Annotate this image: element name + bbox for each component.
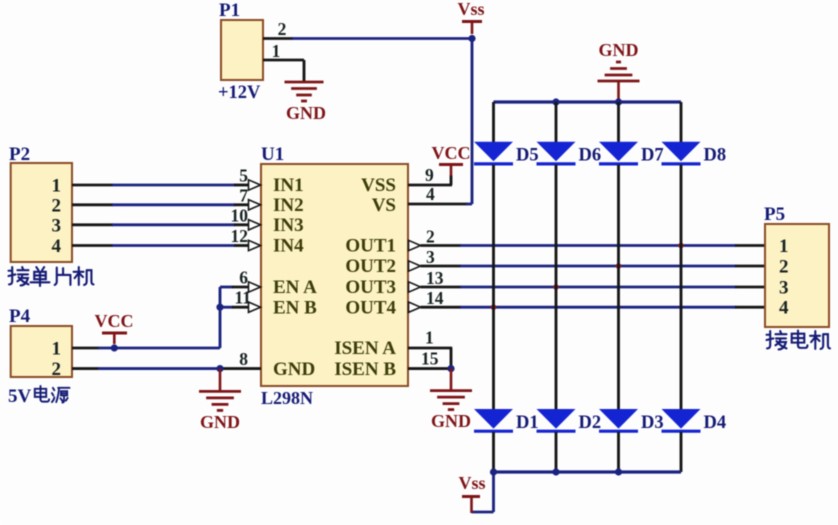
svg-text:D2: D2: [579, 413, 602, 433]
node bottom rail / D2: [552, 468, 559, 475]
label 接单片机: [9, 267, 29, 285]
svg-text:1: 1: [272, 41, 281, 61]
svg-text:VSS: VSS: [361, 175, 396, 196]
svg-text:1: 1: [425, 328, 434, 348]
diode D5: [474, 142, 513, 162]
svg-text:P2: P2: [9, 144, 30, 165]
svg-text:3: 3: [779, 278, 789, 299]
svg-text:ISEN B: ISEN B: [334, 359, 396, 380]
svg-text:7: 7: [239, 185, 248, 205]
diode D8: [662, 142, 701, 162]
wire P2 to U1 IN (pin 5): [72, 184, 113, 187]
power Vss (bottom): [462, 495, 480, 498]
svg-text:+12V: +12V: [218, 83, 261, 103]
svg-text:GND: GND: [431, 411, 471, 431]
wire column between D6/D2: [555, 165, 558, 410]
svg-text:L298N: L298N: [261, 388, 313, 408]
wire column D4 lower: [680, 432, 683, 472]
power Vss (top): [462, 20, 482, 23]
svg-text:EN A: EN A: [273, 277, 317, 298]
wire U1 VS pin4: [408, 203, 467, 206]
wire column D3 lower: [617, 432, 620, 472]
svg-text:IN1: IN1: [273, 175, 304, 196]
wire P2 to U1 IN (pin 12): [72, 244, 113, 247]
svg-text:2: 2: [278, 19, 287, 39]
svg-text:10: 10: [231, 205, 249, 225]
svg-text:OUT4: OUT4: [345, 297, 396, 318]
svg-text:EN B: EN B: [273, 297, 317, 318]
wire bottom rail to Vss: [492, 472, 495, 512]
node Vss junction: [468, 35, 475, 42]
power VCC (U1): [439, 163, 463, 166]
wire OUT net (pin 3) to P5: [409, 261, 421, 271]
svg-text:1: 1: [52, 176, 62, 197]
ground (top, inverted): [616, 61, 621, 64]
svg-text:2: 2: [52, 195, 62, 216]
node EN B junction: [216, 304, 223, 311]
label 接电机: [767, 331, 787, 349]
wire column D8 upper: [680, 102, 683, 143]
wire P2 to U1 IN (pin 7): [72, 203, 113, 206]
wire column between D7/D3: [617, 165, 620, 410]
svg-text:12: 12: [231, 226, 249, 246]
svg-text:U1: U1: [261, 144, 284, 165]
svg-text:1: 1: [52, 339, 62, 360]
connector P1: [221, 20, 263, 80]
wire EN B: [220, 306, 233, 309]
ground (P1): [285, 81, 324, 84]
connector P5: [765, 224, 829, 327]
svg-text:P1: P1: [219, 0, 240, 21]
node bottom rail / D3: [615, 468, 622, 475]
wire bottom rail: [494, 470, 682, 473]
wire U1 VSS pin9 to VCC: [408, 184, 452, 187]
wire P1 pin1 to ground: [263, 59, 304, 62]
svg-text:D4: D4: [704, 413, 727, 433]
wire P4 pin1 to EN net: [72, 347, 99, 350]
svg-text:D6: D6: [579, 146, 602, 166]
node D7/OUT2 junction: [616, 263, 622, 269]
svg-text:4: 4: [779, 298, 789, 319]
diode D6: [537, 142, 576, 162]
wire P2 to U1 IN (pin 10): [72, 223, 113, 226]
svg-text:D5: D5: [516, 146, 539, 166]
wire P1 pin2 to Vss node: [263, 37, 293, 40]
node bottom rail / D1: [490, 468, 497, 475]
svg-text:VCC: VCC: [95, 311, 134, 331]
wire EN vertical: [219, 287, 222, 348]
svg-text:D7: D7: [641, 146, 664, 166]
svg-text:VS: VS: [372, 195, 396, 216]
svg-text:OUT2: OUT2: [345, 256, 396, 277]
svg-text:3: 3: [426, 247, 435, 267]
diode D1: [474, 409, 513, 429]
svg-text:GND: GND: [599, 40, 639, 60]
svg-text:2: 2: [779, 257, 789, 278]
wire P4 pin2 to U1 GND: [72, 367, 99, 370]
wire column D6 upper: [555, 102, 558, 143]
svg-text:GND: GND: [273, 359, 315, 380]
svg-text:IN4: IN4: [273, 236, 304, 257]
wire U1 ISEN A pin1: [408, 347, 452, 350]
power VCC (P4): [102, 332, 127, 335]
wire top rail: [494, 100, 682, 103]
connector P2: [11, 163, 72, 262]
wire column D5 upper: [492, 102, 495, 143]
node GND junction (left): [216, 365, 223, 372]
svg-text:15: 15: [421, 349, 439, 369]
wire column between D5/D1: [492, 165, 495, 410]
svg-text:Vss: Vss: [457, 0, 484, 19]
svg-text:D3: D3: [641, 413, 664, 433]
svg-text:OUT1: OUT1: [345, 236, 396, 257]
node VCC junction (P4): [111, 344, 118, 351]
node top rail / D6: [552, 98, 559, 105]
wire OUT net (pin 13) to P5: [409, 282, 421, 292]
svg-text:13: 13: [426, 268, 444, 288]
op-amp U1 body (L298N): [261, 164, 408, 386]
svg-text:4: 4: [52, 236, 62, 257]
wire EN A: [220, 286, 233, 289]
node D6/OUT3 junction: [553, 284, 559, 290]
svg-text:Vss: Vss: [458, 473, 485, 493]
svg-text:3: 3: [52, 215, 62, 236]
node D5/OUT4 junction: [491, 304, 497, 310]
svg-text:VCC: VCC: [432, 143, 471, 163]
wire U1 ISEN B pin15: [408, 367, 452, 370]
connector P4: [11, 326, 72, 377]
svg-text:2: 2: [426, 227, 435, 247]
wire column D1 lower: [492, 432, 495, 472]
svg-text:2: 2: [52, 359, 62, 380]
svg-text:P4: P4: [9, 306, 31, 327]
svg-text:GND: GND: [286, 103, 326, 123]
wire column D2 lower: [555, 432, 558, 472]
svg-text:5: 5: [239, 166, 248, 186]
diode D2: [537, 409, 576, 429]
wire OUT net (pin 14) to P5: [409, 302, 421, 312]
svg-text:14: 14: [426, 288, 444, 308]
wire Vss vertical to VS: [471, 39, 474, 205]
svg-text:IN3: IN3: [273, 215, 304, 236]
ground (left): [219, 369, 222, 391]
svg-text:D1: D1: [516, 413, 539, 433]
svg-text:OUT3: OUT3: [345, 277, 396, 298]
svg-text:5V: 5V: [8, 386, 32, 407]
svg-text:IN2: IN2: [273, 195, 304, 216]
svg-text:P5: P5: [764, 204, 785, 225]
svg-text:ISEN A: ISEN A: [334, 338, 396, 359]
node ISEN junction: [447, 365, 454, 372]
svg-text:GND: GND: [200, 412, 240, 432]
node top rail / GND stem: [615, 98, 622, 105]
svg-text:11: 11: [234, 288, 251, 308]
svg-text:D8: D8: [704, 146, 727, 166]
svg-text:8: 8: [239, 349, 248, 369]
node D8/OUT1 junction: [678, 243, 684, 249]
svg-text:4: 4: [426, 184, 435, 204]
svg-text:9: 9: [425, 165, 434, 185]
diode D4: [662, 409, 701, 429]
wire OUT net (pin 2) to P5: [409, 240, 421, 250]
svg-text:1: 1: [779, 236, 789, 257]
diode D3: [599, 409, 638, 429]
wire column D7 upper: [617, 102, 620, 143]
svg-text:6: 6: [239, 268, 248, 288]
wire column between D8/D4: [680, 165, 683, 410]
ground (ISEN): [450, 369, 453, 391]
diode D7: [599, 142, 638, 162]
